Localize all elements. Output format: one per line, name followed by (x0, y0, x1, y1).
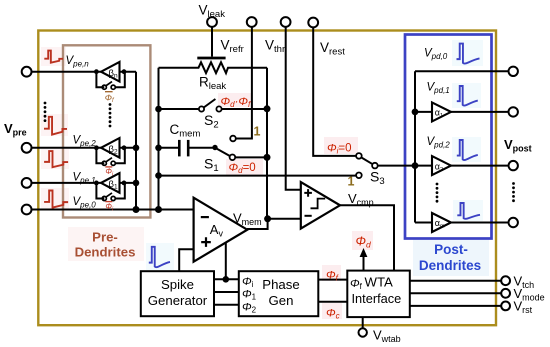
switch label phi_i-bar (cell 1) (105, 202, 114, 213)
svg-text:αm: αm (435, 218, 445, 230)
svg-text:Vmem: Vmem (233, 211, 262, 228)
svg-text:Vpd,1: Vpd,1 (427, 82, 450, 96)
svg-text:βn: βn (109, 68, 118, 80)
switch label phi_i-bar (cell 2) (105, 167, 114, 178)
svg-text:α2: α2 (435, 161, 443, 173)
junction dot on phi_i wire (223, 276, 230, 283)
svg-text:S2: S2 (204, 112, 219, 131)
svg-text:Vpre: Vpre (4, 121, 27, 138)
svg-text:Φd·Φf: Φd·Φf (221, 96, 252, 109)
wire row 0 into Av inverting input (32, 209, 194, 211)
wires Spike Generator to Phase Gen (214, 279, 239, 305)
junction dots on summing rail (133, 145, 140, 214)
svg-text:1: 1 (254, 125, 261, 139)
terminal V_refr (230, 17, 256, 141)
wire Av bottom tap to phase wire (225, 243, 227, 280)
wire membrane node to S3 contact 1 (159, 175, 356, 177)
Av output right rail (266, 68, 268, 219)
WTA Interface box (347, 271, 410, 318)
terminal V_wtab (359, 317, 367, 337)
pre-dendrite cell beta_2 (94, 138, 126, 178)
post-dendrite input rail (414, 71, 416, 222)
input terminal Vpre,n (22, 67, 136, 77)
svg-text:Post-: Post- (434, 242, 468, 257)
svg-text:Phase: Phase (262, 277, 299, 292)
Phase Gen box (239, 271, 318, 316)
svg-text:Cmem: Cmem (170, 122, 201, 140)
Phi_d output arrow from WTA (360, 248, 368, 271)
input terminal Vpre,1 (22, 178, 136, 188)
svg-text:Pre-: Pre- (92, 230, 118, 245)
red input spike glyph row 2 (44, 151, 68, 167)
red input spike glyph row n (44, 51, 63, 63)
terminal V_leak (197, 17, 225, 58)
svg-text:1: 1 (348, 175, 355, 189)
pre-dendrite summing rail (135, 72, 137, 210)
wire row 2 (32, 147, 137, 149)
ellipsis dots at output terminals (512, 182, 515, 202)
switch S1 (212, 145, 267, 160)
svg-text:Dendrites: Dendrites (75, 245, 136, 260)
terminal V_mode (501, 289, 510, 298)
wire V_rest to S3 top contact (313, 27, 356, 156)
switch S2 (159, 99, 268, 112)
svg-text:Vpd,0: Vpd,0 (424, 48, 448, 62)
blue spike glyph row 0 (457, 44, 480, 64)
junction dots left rail (155, 106, 162, 213)
switch label phi_f-bar (cell n) (105, 92, 115, 104)
svg-text:Spike: Spike (161, 277, 194, 292)
wire comparator output V_cmp to WTA (340, 205, 394, 270)
capacitor C_mem (159, 140, 213, 157)
svg-text:Rleak: Rleak (199, 75, 226, 93)
svg-text:WTA: WTA (365, 275, 394, 290)
blue spike glyph row 1 (457, 86, 478, 106)
pre-dendrite cell beta_1 (94, 173, 126, 212)
terminal V_rst (501, 302, 510, 311)
neuron block outer boundary box (38, 31, 496, 326)
svg-text:S1: S1 (204, 156, 219, 175)
output terminal Vpd,m (509, 218, 518, 227)
svg-text:Vpost: Vpost (504, 137, 532, 154)
blue spike glyph row 2 (457, 140, 478, 160)
terminal V_thr (281, 17, 301, 190)
svg-text:Vpd,2: Vpd,2 (427, 136, 451, 150)
membrane left rail (158, 68, 160, 210)
svg-text:β2: β2 (109, 144, 118, 156)
WTA output wires (410, 281, 501, 306)
ellipsis dots inside post box (436, 183, 439, 203)
svg-text:Φi=0: Φi=0 (327, 143, 352, 156)
svg-text:β1: β1 (109, 179, 118, 191)
svg-text:Dendrites: Dendrites (419, 258, 481, 273)
post-dendrite cell alpha_1 (415, 102, 509, 121)
svg-text:Vthr: Vthr (265, 38, 285, 56)
post-dendrite cell alpha_2 (415, 156, 509, 175)
svg-text:Gen: Gen (269, 293, 294, 308)
svg-text:Vpe,1: Vpe,1 (73, 172, 96, 186)
input terminal Vpre,2 (22, 143, 136, 153)
resistor R_leak (159, 62, 268, 73)
wire V_refr to S2 contact 1 (236, 27, 252, 139)
svg-text:Φi: Φi (105, 202, 114, 213)
wire Av + input from spike generator (179, 249, 193, 271)
wire row 1 (32, 182, 137, 184)
Pre-Dendrites group box (63, 45, 150, 217)
svg-text:Av: Av (210, 222, 224, 239)
label Pre-Dendrites (75, 230, 136, 260)
Spike Generator box (141, 271, 214, 316)
post-dendrite row 0 wire (415, 70, 509, 72)
svg-text:Vrest: Vrest (320, 40, 345, 58)
svg-text:α1: α1 (435, 108, 443, 120)
input terminal Vpre,0 (22, 205, 194, 215)
ellipsis dots left column (44, 102, 47, 122)
output terminal Vpd,1 (509, 107, 518, 116)
svg-text:Vpe,n: Vpe,n (66, 55, 90, 69)
red input spike glyph Vpre (44, 117, 67, 135)
svg-text:Interface: Interface (352, 291, 402, 306)
junction dots right rail (264, 105, 271, 161)
svg-text:Φf: Φf (105, 92, 115, 104)
svg-text:Vpe,2: Vpe,2 (73, 135, 97, 149)
svg-text:Vleak: Vleak (199, 3, 226, 21)
svg-text:Vpe,0: Vpe,0 (73, 196, 97, 210)
blue spike glyph at spike generator (149, 247, 170, 267)
svg-text:Vcmp: Vcmp (348, 191, 374, 208)
ellipsis dots inside pre box (109, 103, 112, 127)
op-amp Av (194, 198, 248, 262)
svg-text:S3: S3 (370, 169, 385, 188)
comparator U2 (301, 182, 340, 229)
svg-text:Vwtab: Vwtab (373, 328, 401, 345)
svg-text:Generator: Generator (148, 293, 208, 308)
post-dendrite cell alpha_m (415, 213, 509, 232)
wire V_thr to comparator + (286, 27, 301, 190)
V_mem node (247, 215, 301, 229)
terminal V_tch (501, 276, 510, 285)
wire row n (32, 71, 137, 73)
wires Phase Gen to WTA (318, 280, 347, 302)
terminal V_rest (308, 18, 361, 159)
Post-Dendrites group box (405, 35, 492, 239)
junction dots post rail (412, 109, 419, 170)
output terminal Vpd,2 (509, 161, 518, 170)
label Post-Dendrites (419, 242, 481, 273)
red input spike glyph row 1 (44, 191, 68, 208)
background halo tints (compression halos in original) (41, 40, 489, 319)
pre-dendrite cell beta_n (94, 62, 126, 104)
output terminal Vpd,0 (509, 67, 518, 76)
svg-text:Φd=0: Φd=0 (229, 162, 256, 175)
switch S3 (356, 157, 415, 178)
blue spike glyph row m (457, 203, 480, 219)
svg-text:Vrefr: Vrefr (221, 38, 244, 56)
